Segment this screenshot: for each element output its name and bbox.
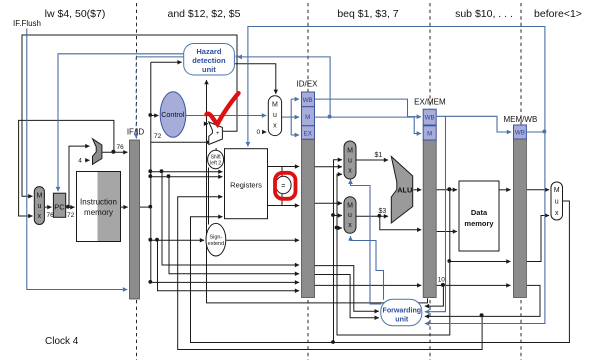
svg-text:Data: Data [471,208,488,217]
svg-text:PC: PC [54,203,65,212]
svg-text:unit: unit [202,65,216,74]
svg-text:Forwarding: Forwarding [382,307,421,315]
svg-text:detection: detection [192,56,226,65]
svg-text:IF.Flush: IF.Flush [13,19,41,28]
svg-text:76: 76 [117,144,125,151]
svg-text:u: u [273,112,277,119]
svg-text:WB: WB [515,130,525,137]
svg-text:memory: memory [464,219,494,228]
svg-text:M: M [347,203,353,210]
svg-text:unit: unit [395,316,409,324]
svg-text:ALU: ALU [397,185,412,194]
svg-text:lw $4, 50($7): lw $4, 50($7) [45,8,106,20]
svg-text:M: M [272,102,278,109]
svg-text:u: u [555,199,559,206]
svg-text:u: u [348,158,352,165]
svg-text:Registers: Registers [230,181,262,190]
svg-text:x: x [273,123,277,130]
svg-text:ID/EX: ID/EX [297,80,319,89]
svg-text:4: 4 [78,157,82,164]
svg-text:Control: Control [161,110,185,119]
svg-text:$1: $1 [375,152,383,159]
svg-text:memory: memory [84,208,113,217]
svg-text:x: x [348,222,352,229]
svg-text:and $12, $2, $5: and $12, $2, $5 [168,8,241,20]
svg-text:M: M [554,187,560,194]
svg-text:10: 10 [438,277,446,284]
svg-text:$3: $3 [379,208,387,215]
svg-text:x: x [348,168,352,175]
svg-text:Sign-: Sign- [209,235,222,241]
svg-text:M: M [347,148,353,155]
svg-text:x: x [38,213,42,220]
svg-text:=: = [281,183,285,190]
svg-text:x: x [555,210,559,217]
svg-text:WB: WB [425,115,435,122]
svg-text:M: M [427,130,432,137]
svg-text:sub $10, . . .: sub $10, . . . [455,8,513,20]
svg-text:72: 72 [154,133,162,140]
svg-text:EX/MEM: EX/MEM [414,98,446,107]
svg-text:72: 72 [67,212,75,219]
svg-text:left 2: left 2 [210,161,221,167]
svg-text:u: u [348,212,352,219]
svg-text:M: M [36,193,42,200]
svg-text:u: u [37,203,41,210]
svg-text:extend: extend [208,241,225,247]
svg-text:Instruction: Instruction [80,198,117,207]
svg-text:WB: WB [303,97,313,104]
svg-text:IF/ID: IF/ID [127,128,145,137]
svg-text:MEM/WB: MEM/WB [504,115,538,124]
svg-text:+: + [216,131,220,137]
svg-text:before<1>: before<1> [534,8,582,20]
svg-text:EX: EX [304,130,312,137]
svg-text:Hazard: Hazard [196,47,221,56]
svg-text:Clock 4: Clock 4 [45,336,79,347]
svg-text:76: 76 [47,212,55,219]
svg-text:M: M [305,114,310,121]
svg-text:beq $1, $3, 7: beq $1, $3, 7 [337,8,398,20]
svg-text:0: 0 [257,129,261,136]
